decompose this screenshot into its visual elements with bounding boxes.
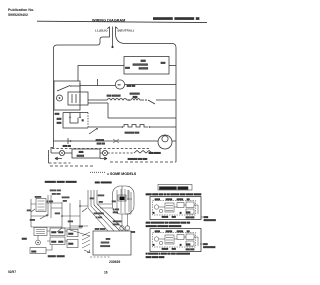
svg-text:Publication No.: Publication No. — [8, 8, 34, 12]
svg-text:02/97: 02/97 — [8, 270, 16, 274]
svg-text:16: 16 — [104, 270, 108, 274]
svg-text:5995269402: 5995269402 — [8, 13, 28, 17]
svg-text:230639: 230639 — [109, 260, 120, 264]
svg-text:= SOME MODELS: = SOME MODELS — [107, 172, 137, 176]
svg-text:L1,(BLK): L1,(BLK) — [95, 29, 108, 33]
svg-text:(NEUTRAL): (NEUTRAL) — [118, 29, 134, 33]
svg-text:TT: TT — [117, 83, 121, 87]
